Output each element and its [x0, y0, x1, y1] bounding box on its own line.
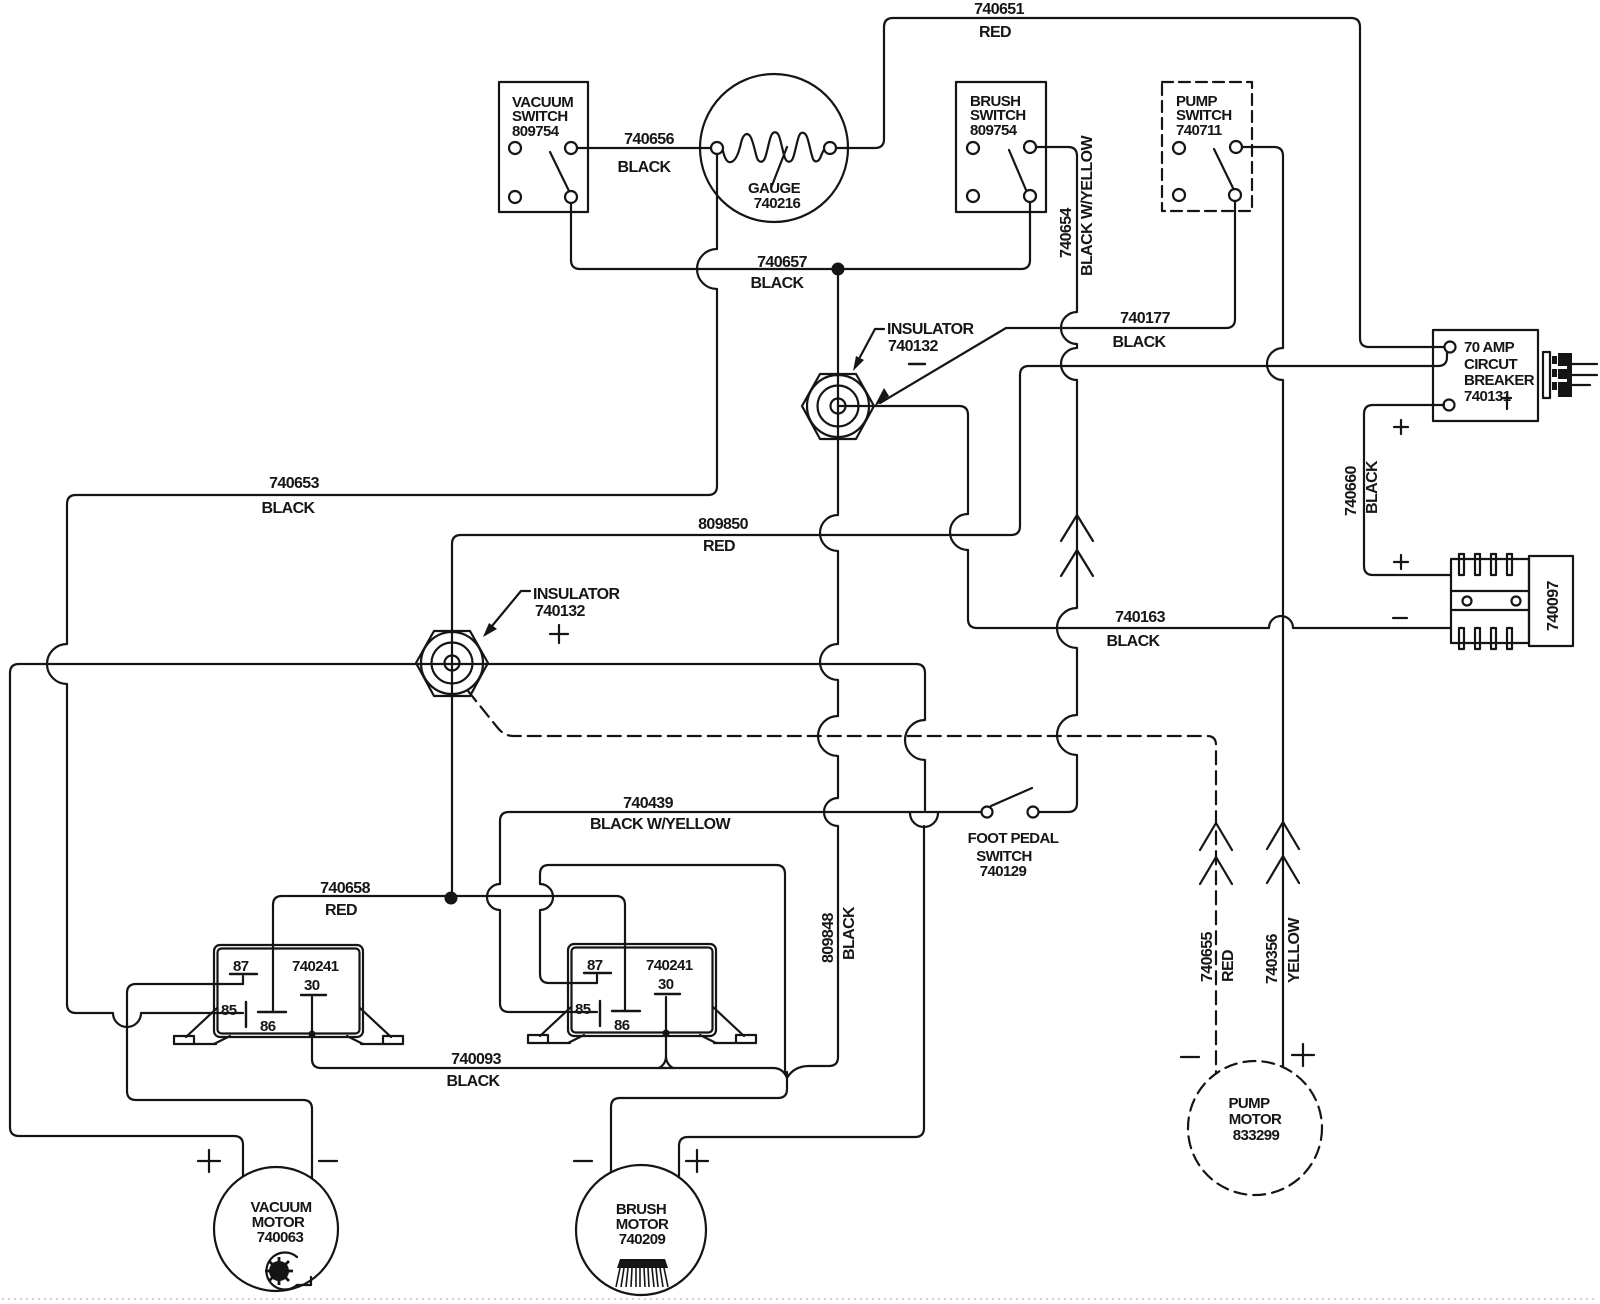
- brush motor M2 740209: [576, 1165, 706, 1295]
- pump motor name label 833299: [1229, 1095, 1283, 1144]
- wire 740655 RED dashed: insulator 2 to pump motor minus: [468, 691, 1216, 1073]
- svg-text:809850: 809850: [698, 516, 748, 533]
- faint page edge dotted line: [2, 1298, 1598, 1300]
- gauge 740216: [700, 74, 848, 222]
- insulator label leader (lower): [483, 591, 568, 643]
- relay R2 value label 740241: [646, 957, 693, 974]
- svg-text:740131: 740131: [1464, 388, 1511, 405]
- insulator 740132 (upper): [802, 374, 874, 439]
- svg-text:BLACK: BLACK: [841, 906, 858, 960]
- pump motor M3 833299 (dashed): [1188, 1061, 1322, 1195]
- svg-text:MOTOR: MOTOR: [1229, 1111, 1282, 1128]
- polarity marks: breaker plus: [1394, 420, 1408, 434]
- relay R2 pin 86: [612, 1011, 640, 1034]
- wire 740093 BLACK: relay pin 30 ground bus: [312, 997, 787, 1078]
- insulator label leader (upper): [853, 329, 925, 371]
- wire 740657 BLACK: vacuum switch to brush switch bottom terminals: [571, 202, 1030, 269]
- wire 809850 RED: insulator 2 up and across to circuit breaker: [452, 352, 1447, 893]
- svg-text:BLACK: BLACK: [1107, 633, 1161, 650]
- polarity marks: vacuum motor plus: [198, 1150, 220, 1172]
- junction dot on 740657 at x838: [832, 263, 845, 276]
- label wire 740660 BLACK (vertical): [1343, 460, 1381, 516]
- wire common bus y664: left edge through insulator 2 to brush motor plus: [19, 664, 938, 1177]
- svg-text:BLACK: BLACK: [751, 275, 805, 292]
- circuit breaker name label 740131: [1464, 339, 1535, 409]
- relay R1 740241 body: [214, 945, 363, 1037]
- wire 740163 BLACK: insulator 1 to battery connector minus: [838, 406, 1451, 628]
- pump switch S3 740711 (dashed enclosure): [1162, 82, 1252, 211]
- polarity marks: pump motor plus: [1292, 1044, 1314, 1066]
- svg-text:740658: 740658: [320, 880, 370, 897]
- svg-text:30: 30: [658, 976, 674, 993]
- relay R1 pin 30: [301, 977, 326, 995]
- relay R1 value label 740241: [292, 958, 339, 975]
- svg-text:BLACK: BLACK: [1113, 334, 1167, 351]
- label wire 740658 RED: [320, 880, 370, 919]
- label insulator (lower): [533, 586, 620, 620]
- pin 30 pass-through dots: [309, 1030, 670, 1038]
- wire relay R1 pin 87 to vacuum motor minus: [127, 984, 312, 1178]
- svg-text:809848: 809848: [820, 913, 837, 963]
- svg-text:RED: RED: [979, 24, 1011, 41]
- wire 809848 BLACK: junction on 740657 down through insulator 1 to ground bus: [787, 274, 838, 1078]
- polarity marks: connector minus: [1393, 617, 1407, 619]
- battery connector 740097: [1451, 554, 1573, 649]
- svg-text:740132: 740132: [535, 603, 585, 620]
- brush motor brush icon: [616, 1259, 668, 1287]
- svg-text:740657: 740657: [757, 254, 807, 271]
- polarity marks: vacuum motor minus: [319, 1160, 337, 1162]
- label wire 740657 BLACK: [751, 254, 808, 292]
- arrow chevrons on wire 740655: [1200, 823, 1232, 884]
- relay R2 740241 body: [568, 944, 716, 1036]
- vacuum motor blower icon: [265, 1252, 311, 1289]
- svg-text:RED: RED: [1220, 950, 1237, 982]
- svg-text:740097: 740097: [1545, 581, 1562, 631]
- svg-text:740132: 740132: [888, 338, 938, 355]
- relay R2 mounting feet: [528, 1007, 756, 1043]
- label wire 809848 BLACK (vertical): [820, 906, 858, 963]
- svg-text:INSULATOR: INSULATOR: [887, 321, 974, 338]
- arrow chevrons on wire 740356: [1267, 822, 1299, 883]
- svg-text:740241: 740241: [292, 958, 339, 975]
- wire 740356 YELLOW: pump switch to pump motor plus: [1242, 147, 1283, 1067]
- pump switch name label 740711: [1176, 93, 1232, 139]
- wire 740651 RED: gauge to circuit breaker via top: [836, 18, 1444, 347]
- polarity marks: connector plus: [1394, 555, 1408, 569]
- relay R2 pin 87: [584, 957, 611, 983]
- svg-text:BLACK: BLACK: [618, 159, 672, 176]
- insulator 740132 (lower): [416, 631, 488, 696]
- vacuum switch name label 809754: [512, 94, 573, 140]
- svg-text:BLACK: BLACK: [447, 1073, 501, 1090]
- svg-text:740129: 740129: [980, 863, 1027, 880]
- label wire 740163 BLACK: [1107, 609, 1166, 650]
- svg-text:87: 87: [587, 957, 603, 974]
- wire 740660 BLACK: circuit breaker to battery connector plus: [1364, 405, 1451, 575]
- svg-text:740177: 740177: [1120, 310, 1170, 327]
- svg-text:86: 86: [614, 1017, 630, 1034]
- circuit breaker stud and bolt: [1543, 352, 1597, 398]
- label wire 740177 BLACK: [1113, 310, 1171, 351]
- relay R1 pin 87: [230, 958, 257, 984]
- arrow chevrons on wire 740654: [1061, 515, 1093, 576]
- svg-text:85: 85: [221, 1002, 237, 1019]
- svg-text:740093: 740093: [451, 1051, 501, 1068]
- relay R2 pin 30 drop to ground bus: [659, 997, 673, 1068]
- svg-text:70 AMP: 70 AMP: [1464, 339, 1515, 356]
- svg-text:740209: 740209: [619, 1231, 666, 1248]
- vacuum switch S1 809754: [499, 82, 588, 212]
- svg-text:740711: 740711: [1176, 122, 1222, 139]
- svg-text:30: 30: [304, 977, 320, 994]
- svg-text:740063: 740063: [257, 1229, 304, 1246]
- junction dot on 740658 at x450: [445, 892, 458, 905]
- label insulator (upper): [887, 321, 974, 355]
- wire relay R2 pin 87 riser to brush circuit: [540, 865, 785, 1074]
- label wire 740439 BLACK W/YELLOW: [590, 795, 732, 833]
- label wire 740653 BLACK: [262, 475, 320, 517]
- label wire 740356 YELLOW (vertical): [1264, 917, 1303, 984]
- svg-text:740653: 740653: [269, 475, 319, 492]
- svg-text:CIRCUT: CIRCUT: [1464, 356, 1517, 373]
- brush motor name label 740209: [616, 1201, 669, 1248]
- svg-text:INSULATOR: INSULATOR: [533, 586, 620, 603]
- brush switch name label 809754: [970, 93, 1026, 139]
- svg-text:740241: 740241: [646, 957, 693, 974]
- svg-text:87: 87: [233, 958, 249, 975]
- svg-text:740655: 740655: [1199, 932, 1216, 982]
- svg-text:85: 85: [575, 1001, 591, 1018]
- foot pedal switch S4 740129: [982, 788, 1039, 818]
- svg-text:740660: 740660: [1343, 466, 1360, 516]
- wire brush motor minus: ground bus junction down to brush motor: [611, 1072, 787, 1172]
- wire 740653 BLACK: gauge terminal down and across to relay R1 coil pin 85: [47, 154, 717, 1027]
- svg-text:740656: 740656: [624, 131, 674, 148]
- relay R2 pin 30: [655, 976, 680, 994]
- svg-text:809754: 809754: [970, 122, 1018, 139]
- label wire 740093 BLACK: [447, 1051, 502, 1090]
- wire 740654 BLACK W/YELLOW: brush switch to foot pedal switch: [1036, 147, 1077, 812]
- wire vacuum motor plus: from node at x10 down and right: [10, 664, 243, 1176]
- svg-text:BLACK: BLACK: [1364, 460, 1381, 514]
- svg-text:809754: 809754: [512, 123, 560, 140]
- svg-text:740654: 740654: [1058, 208, 1075, 258]
- relay R1 pin 86: [258, 1012, 286, 1035]
- svg-text:740651: 740651: [974, 1, 1024, 18]
- 70 amp circuit breaker CB1 740131: [1433, 330, 1538, 421]
- label wire 740655 RED (vertical): [1199, 932, 1237, 982]
- svg-text:740439: 740439: [623, 795, 673, 812]
- svg-text:86: 86: [260, 1018, 276, 1035]
- svg-text:BREAKER: BREAKER: [1464, 372, 1535, 389]
- relay R1 pin 85: [221, 1002, 246, 1027]
- svg-text:PUMP: PUMP: [1229, 1095, 1271, 1112]
- gauge name label 740216: [748, 180, 801, 212]
- polarity marks: brush motor minus: [574, 1160, 592, 1162]
- brush switch S2 809754: [956, 82, 1046, 212]
- svg-text:RED: RED: [325, 902, 357, 919]
- wire 740656 BLACK: vacuum switch to gauge: [577, 147, 711, 149]
- label wire 809850 RED: [698, 516, 748, 555]
- svg-text:740216: 740216: [754, 195, 801, 212]
- wire 740658 RED: relay R1 pin 86 to relay R2 pin 86: [273, 896, 625, 1010]
- svg-text:YELLOW: YELLOW: [1286, 917, 1303, 983]
- label wire 740654 BLACK W/YELLOW (vertical): [1058, 134, 1096, 276]
- wire 740177 BLACK: pump switch to insulator 1: [874, 201, 1235, 407]
- foot pedal switch name label 740129: [968, 830, 1059, 880]
- svg-text:FOOT PEDAL: FOOT PEDAL: [968, 830, 1059, 847]
- svg-text:RED: RED: [703, 538, 735, 555]
- wire 740439 BLACK W/YELLOW: foot pedal switch to relay R2 pin 85: [487, 812, 981, 1012]
- label wire 740651 RED: [974, 1, 1024, 41]
- label connector 740097 (vertical): [1545, 581, 1562, 631]
- relay R2 pin 85: [575, 1001, 600, 1026]
- polarity marks: pump motor minus: [1181, 1056, 1199, 1058]
- svg-text:833299: 833299: [1233, 1127, 1280, 1144]
- label wire 740656 BLACK: [618, 131, 675, 176]
- svg-text:740163: 740163: [1115, 609, 1165, 626]
- svg-text:BLACK W/YELLOW: BLACK W/YELLOW: [1079, 134, 1096, 276]
- polarity marks: brush motor plus: [686, 1150, 708, 1172]
- svg-text:BLACK W/YELLOW: BLACK W/YELLOW: [590, 816, 732, 833]
- vacuum motor M1 740063: [214, 1167, 338, 1291]
- vacuum motor name label 740063: [250, 1199, 311, 1246]
- svg-text:740356: 740356: [1264, 934, 1281, 984]
- svg-text:BLACK: BLACK: [262, 500, 316, 517]
- relay R1 mounting feet: [174, 1008, 403, 1044]
